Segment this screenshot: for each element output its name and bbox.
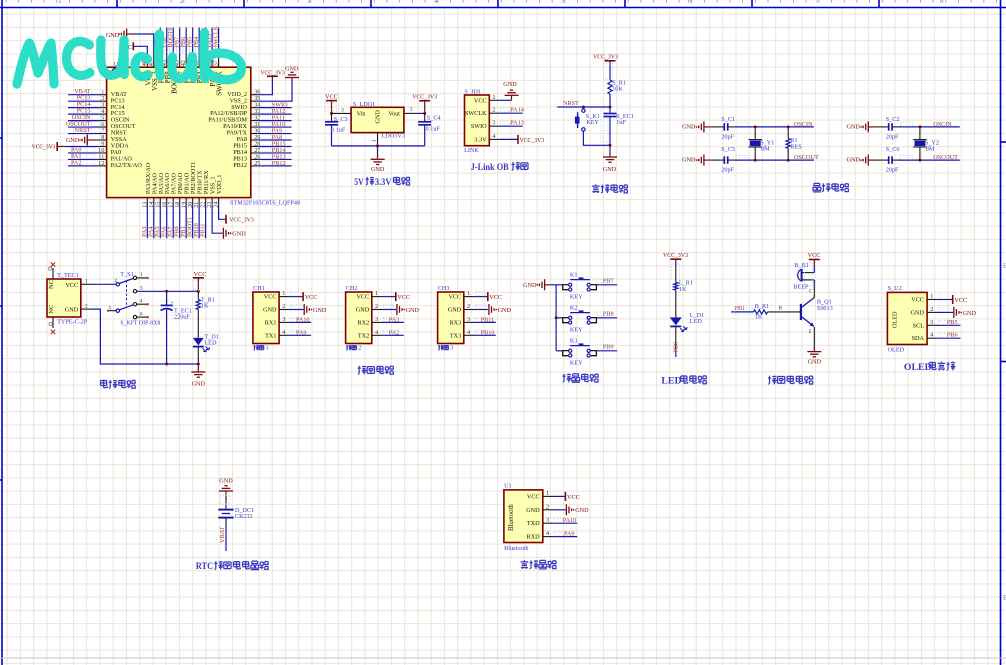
svg-text:1: 1 bbox=[492, 94, 495, 101]
wire U1 top pin 37 bbox=[218, 28, 220, 56]
svg-text:GND: GND bbox=[192, 380, 206, 387]
wire U1 pin 25 bbox=[259, 165, 292, 167]
CH3 pin 3 bbox=[464, 321, 475, 323]
node junction bbox=[582, 106, 585, 109]
svg-text:LINK: LINK bbox=[464, 147, 479, 154]
power VCC_3V3 top right of U1 bbox=[267, 75, 278, 77]
wire U1 pin 27 bbox=[259, 152, 292, 154]
node junction Vout bbox=[423, 112, 426, 115]
svg-text:4: 4 bbox=[375, 329, 378, 336]
svg-text:TYPE-C-2P: TYPE-C-2P bbox=[57, 319, 88, 326]
crystal S_Y2 8M bbox=[919, 127, 921, 139]
svg-text:VCC: VCC bbox=[356, 294, 369, 301]
TEC1 bottom pin with no-ERC bbox=[52, 317, 54, 328]
svg-text:2: 2 bbox=[930, 306, 933, 313]
power VCC_3V3 bottom of U1 bbox=[225, 215, 227, 224]
svg-text:STM32F103C8T6_LQFP48: STM32F103C8T6_LQFP48 bbox=[230, 200, 300, 207]
svg-text:S_C1: S_C1 bbox=[721, 116, 735, 123]
svg-text:VCC: VCC bbox=[305, 294, 318, 301]
svg-text:LDO3V3: LDO3V3 bbox=[382, 133, 405, 140]
svg-text:S_KFT DIP-8X8: S_KFT DIP-8X8 bbox=[120, 319, 160, 326]
svg-text:OLED: OLED bbox=[904, 362, 932, 373]
svg-text:VCC: VCC bbox=[65, 282, 78, 289]
wire U1 pin36 to VCC_3V3 bbox=[259, 76, 273, 94]
svg-text:CH1: CH1 bbox=[253, 285, 265, 292]
svg-text:GND: GND bbox=[313, 307, 327, 314]
wire bbox=[813, 266, 815, 273]
svg-text:S9013: S9013 bbox=[817, 305, 833, 312]
wire U1 pin 29 bbox=[259, 139, 292, 141]
CH2 pin 4 bbox=[372, 334, 383, 336]
CH3 pin 1 bbox=[464, 296, 475, 298]
svg-text:3: 3 bbox=[467, 316, 470, 323]
wire bbox=[710, 159, 724, 161]
svg-text:GND: GND bbox=[846, 157, 860, 164]
S_JD1 pin 1 bbox=[489, 99, 500, 101]
power VCC bt bbox=[564, 492, 566, 501]
svg-text:VCC: VCC bbox=[489, 294, 502, 301]
svg-text:B_B1: B_B1 bbox=[794, 262, 808, 269]
svg-text:PA14: PA14 bbox=[510, 107, 524, 114]
wire U1 bottom pin 14 bbox=[153, 206, 155, 239]
svg-text:Bluetooth: Bluetooth bbox=[504, 545, 529, 552]
wire bbox=[197, 347, 199, 364]
wire U1 bottom pin 16 bbox=[166, 206, 168, 239]
svg-text:PB12: PB12 bbox=[233, 162, 247, 169]
svg-text:GND: GND bbox=[356, 307, 370, 314]
svg-text:GND: GND bbox=[106, 32, 120, 39]
svg-text:PA3: PA3 bbox=[389, 317, 399, 324]
svg-text:0.1uF: 0.1uF bbox=[426, 125, 441, 132]
svg-text:OSCOUT: OSCOUT bbox=[794, 154, 819, 161]
svg-text:VCC_3V3: VCC_3V3 bbox=[412, 93, 437, 100]
svg-text:S_LDO1: S_LDO1 bbox=[353, 101, 375, 108]
key K2 bbox=[556, 317, 563, 319]
resistor L_R1 1K bbox=[674, 282, 678, 290]
svg-text:RX2: RX2 bbox=[357, 319, 369, 326]
svg-text:BEEP: BEEP bbox=[793, 283, 809, 290]
caption buzzer bbox=[768, 376, 777, 385]
svg-text:KEY: KEY bbox=[570, 327, 583, 334]
caption power bbox=[101, 380, 108, 388]
svg-text:KEY: KEY bbox=[586, 119, 599, 126]
power VCC_3V3 at pin4 bbox=[517, 135, 519, 144]
svg-text:NRST: NRST bbox=[563, 100, 579, 107]
wire to VCC bbox=[383, 296, 396, 298]
S_U2 pin 1 bbox=[927, 299, 938, 301]
svg-text:PB10: PB10 bbox=[481, 329, 495, 336]
wire key to gnd bbox=[583, 131, 610, 145]
ground of LDO bbox=[377, 146, 379, 154]
wire U1 top pin 38 bbox=[211, 28, 213, 56]
svg-text:VCC: VCC bbox=[527, 493, 540, 500]
svg-text:OSCIN: OSCIN bbox=[794, 121, 813, 128]
svg-text:20pF: 20pF bbox=[721, 166, 734, 173]
svg-text:VCC: VCC bbox=[567, 494, 580, 501]
svg-text:3: 3 bbox=[930, 319, 933, 326]
svg-text:S_U2: S_U2 bbox=[888, 285, 902, 292]
wire U1 top pin 46 bbox=[159, 28, 161, 56]
svg-text:220uF: 220uF bbox=[174, 314, 190, 321]
svg-text:SWIO: SWIO bbox=[471, 123, 487, 130]
capacitor T_EC1 220uF bbox=[166, 291, 168, 305]
caption keys bbox=[562, 374, 571, 383]
wire U1 bottom pin 18 bbox=[179, 206, 181, 239]
svg-text:20pF: 20pF bbox=[886, 134, 899, 141]
ground bbox=[304, 304, 312, 315]
throw 6 stub bbox=[137, 316, 147, 318]
wire U1 pin 28 bbox=[259, 145, 292, 147]
U1 top pins 48-37 bbox=[146, 55, 148, 67]
svg-text:GND: GND bbox=[448, 307, 462, 314]
svg-text:PB7: PB7 bbox=[603, 278, 614, 285]
wire with net label PB0 bbox=[675, 326, 677, 352]
wire base cont bbox=[768, 311, 801, 313]
svg-text:PB12: PB12 bbox=[272, 160, 286, 167]
wire bbox=[892, 126, 898, 128]
svg-text:GND: GND bbox=[371, 166, 385, 173]
svg-text:VCC: VCC bbox=[954, 297, 967, 304]
svg-text:T_TEC1: T_TEC1 bbox=[57, 272, 79, 279]
CH2 pin 3 bbox=[372, 321, 383, 323]
TEC1 top pin with no-ERC bbox=[52, 268, 54, 279]
svg-text:3: 3 bbox=[450, 345, 453, 352]
resistor R1 RES bbox=[787, 127, 789, 139]
LDO ground pin bbox=[377, 133, 379, 146]
serial connector CH1 bbox=[253, 292, 279, 344]
wire U1 top pin 41 bbox=[192, 28, 194, 56]
svg-text:GND: GND bbox=[66, 137, 80, 144]
svg-text:B: B bbox=[779, 305, 783, 311]
svg-text:8M: 8M bbox=[761, 146, 770, 153]
svg-text:PB11: PB11 bbox=[199, 223, 206, 237]
CH1 pin 4 bbox=[279, 334, 290, 336]
wire with net label VBAT bbox=[225, 518, 227, 524]
node junction Vin bbox=[330, 112, 333, 115]
wire Vout bbox=[404, 112, 418, 114]
svg-text:LED: LED bbox=[661, 376, 681, 387]
wire U1 top pin 45 bbox=[166, 28, 168, 56]
svg-text:GND: GND bbox=[65, 307, 79, 314]
svg-text:2: 2 bbox=[282, 303, 285, 310]
wire Vin bbox=[332, 112, 352, 114]
svg-text:TXD: TXD bbox=[527, 520, 540, 527]
node junction bbox=[197, 290, 200, 293]
label serial port 2 bbox=[346, 345, 351, 350]
svg-text:VCC_3V3: VCC_3V3 bbox=[260, 69, 285, 76]
svg-text:PB0: PB0 bbox=[672, 342, 679, 353]
serial connector CH2 bbox=[346, 292, 372, 344]
svg-text:3.3V: 3.3V bbox=[474, 136, 487, 143]
wire bbox=[609, 94, 611, 107]
S_JD1 pin 3 bbox=[489, 125, 500, 127]
svg-text:VCC_3V3: VCC_3V3 bbox=[520, 137, 545, 144]
capacitor S_C4 bbox=[424, 113, 426, 121]
svg-text:TX1: TX1 bbox=[265, 332, 276, 339]
svg-text:S_C3: S_C3 bbox=[334, 116, 348, 123]
svg-text:LED: LED bbox=[690, 318, 703, 325]
svg-text:PA2: PA2 bbox=[389, 329, 399, 336]
svg-text:GND: GND bbox=[575, 507, 589, 514]
wire U1 pin 24 to VCC_3V3 bbox=[219, 206, 226, 220]
label serial port 3 bbox=[438, 345, 443, 350]
wire NRST bbox=[557, 106, 610, 108]
wire U1 pin 33 bbox=[259, 113, 292, 115]
svg-text:GND: GND bbox=[682, 157, 696, 164]
svg-text:PB6: PB6 bbox=[947, 332, 958, 339]
svg-text:RTC: RTC bbox=[196, 561, 214, 572]
caption reset bbox=[592, 184, 600, 193]
svg-text:VCC: VCC bbox=[397, 294, 410, 301]
CH3 pin 4 bbox=[464, 334, 475, 336]
svg-text:7: 7 bbox=[815, 0, 819, 5]
wire net PB9 bbox=[596, 350, 617, 352]
svg-text:1: 1 bbox=[546, 490, 549, 497]
svg-text:20pF: 20pF bbox=[886, 166, 899, 173]
svg-text:J-Link OB: J-Link OB bbox=[471, 162, 509, 173]
wire bbox=[728, 126, 734, 128]
capacitor S_C5 20pF bbox=[724, 156, 727, 164]
resistor S_R1 10K bbox=[608, 80, 612, 94]
node junction bbox=[197, 363, 200, 366]
wire pin1 to GND bbox=[500, 99, 512, 101]
svg-text:OLED: OLED bbox=[892, 311, 899, 328]
power VCC bbox=[395, 292, 397, 301]
svg-text:4: 4 bbox=[546, 530, 549, 537]
capacitor S_C1 20pF bbox=[724, 123, 727, 130]
bluetooth pin 2 bbox=[543, 509, 554, 511]
node junction cap bottom bbox=[165, 363, 168, 366]
wire net PA2 bbox=[383, 334, 404, 336]
svg-text:PA10: PA10 bbox=[563, 517, 577, 524]
OLED connector S_U2 bbox=[887, 292, 927, 344]
svg-text:SDA: SDA bbox=[912, 335, 925, 342]
caption crystal bbox=[813, 183, 821, 191]
svg-text:PB9: PB9 bbox=[603, 344, 614, 351]
wire to VCC bbox=[290, 296, 303, 298]
svg-text:E: E bbox=[809, 329, 812, 335]
svg-text:VCC: VCC bbox=[474, 97, 487, 104]
switch throw 1 bbox=[133, 276, 136, 279]
svg-text:3: 3 bbox=[546, 517, 549, 524]
svg-text:S_C5: S_C5 bbox=[721, 146, 735, 153]
node junction cap top bbox=[165, 290, 168, 293]
throw 1 stub bbox=[137, 277, 147, 279]
key K3 bbox=[556, 350, 563, 352]
svg-text:K2: K2 bbox=[570, 305, 578, 312]
svg-text:10K: 10K bbox=[612, 86, 623, 93]
svg-text:S_C4: S_C4 bbox=[427, 115, 441, 122]
capacitor S_C6 20pF bbox=[889, 156, 892, 164]
svg-text:GND: GND bbox=[219, 477, 233, 484]
svg-text:1: 1 bbox=[58, 0, 62, 5]
wire U1 bottom pin 19 bbox=[185, 206, 187, 239]
svg-text:1: 1 bbox=[266, 345, 269, 352]
wire U1 pin 34 bbox=[259, 107, 292, 109]
wire U1 top pin 42 bbox=[185, 28, 187, 56]
ground power block bbox=[197, 364, 199, 372]
key bus wire bbox=[555, 285, 557, 351]
wire U1 top pin 39 bbox=[205, 28, 207, 56]
CH1 pin 2 bbox=[279, 309, 290, 311]
wire U1 top pin 43 bbox=[179, 28, 181, 56]
svg-text:KEY: KEY bbox=[570, 360, 583, 367]
wire U1 bottom pin 20 bbox=[192, 206, 194, 239]
svg-text:LED: LED bbox=[204, 340, 217, 347]
wires left of U1 bbox=[68, 94, 99, 96]
bluetooth module U1 bbox=[504, 490, 543, 543]
wire U1 pin 30 bbox=[259, 133, 292, 135]
wire bbox=[875, 126, 889, 128]
svg-text:2: 2 bbox=[467, 303, 470, 310]
svg-text:5: 5 bbox=[109, 305, 112, 311]
svg-text:1K: 1K bbox=[755, 314, 763, 321]
svg-text:VCC: VCC bbox=[808, 252, 821, 259]
wire gnd to bus bbox=[550, 284, 557, 286]
svg-text:GND: GND bbox=[263, 307, 277, 314]
svg-text:VCC: VCC bbox=[911, 297, 924, 304]
CH2 pin 1 bbox=[372, 296, 383, 298]
svg-text:3: 3 bbox=[282, 316, 285, 323]
svg-text:K1: K1 bbox=[570, 272, 578, 279]
wire net PA3 bbox=[383, 321, 404, 323]
svg-text:8: 8 bbox=[940, 0, 944, 5]
battery D_DC1 CR232 bbox=[218, 510, 233, 518]
svg-text:S_JD1: S_JD1 bbox=[464, 88, 481, 95]
svg-text:GND: GND bbox=[232, 231, 246, 238]
svg-text:20pF: 20pF bbox=[721, 134, 734, 141]
S_U2 pin 3 bbox=[927, 324, 938, 326]
wire net PB7 bbox=[596, 284, 617, 286]
svg-text:GND: GND bbox=[963, 310, 977, 317]
svg-text:1: 1 bbox=[371, 139, 377, 142]
svg-text:PA9: PA9 bbox=[296, 329, 306, 336]
svg-text:2: 2 bbox=[375, 303, 378, 310]
svg-text:1: 1 bbox=[375, 290, 378, 297]
ground reset bbox=[609, 145, 611, 152]
svg-text:OLED: OLED bbox=[888, 347, 905, 354]
svg-text:VCC: VCC bbox=[325, 93, 338, 100]
logo MCUclub bbox=[17, 33, 242, 85]
svg-text:VCC_3V3: VCC_3V3 bbox=[32, 144, 56, 151]
S_JD1 pin 2 bbox=[489, 112, 500, 114]
capacitor S_C3 bbox=[331, 113, 333, 121]
CH2 pin 2 bbox=[372, 309, 383, 311]
bluetooth pin 3 bbox=[543, 522, 554, 524]
switch throw 4 bbox=[133, 303, 136, 306]
svg-text:PA2: PA2 bbox=[71, 159, 81, 166]
wire to GND bbox=[475, 309, 489, 311]
svg-text:RXD: RXD bbox=[527, 534, 541, 541]
S_JD1 pin 4 bbox=[489, 138, 500, 140]
wire to GND bbox=[383, 309, 397, 311]
svg-text:3: 3 bbox=[492, 120, 495, 127]
bluetooth pin 1 bbox=[543, 495, 554, 497]
svg-text:T_S1: T_S1 bbox=[120, 271, 133, 278]
graphic circle on U1 bbox=[112, 69, 118, 75]
wire VCC to switch bbox=[93, 283, 116, 285]
svg-text:VBAT: VBAT bbox=[219, 527, 226, 543]
svg-text:VCC: VCC bbox=[448, 294, 461, 301]
connector T_TEC1 TYPE-C-2P bbox=[47, 279, 81, 317]
S_U2 pin 2 bbox=[927, 311, 938, 313]
svg-text:PA13: PA13 bbox=[510, 120, 524, 127]
power VCC oled bbox=[952, 295, 954, 304]
wire bbox=[675, 290, 677, 317]
svg-text:TX2: TX2 bbox=[358, 332, 369, 339]
wire U1 bottom pin 17 bbox=[172, 206, 174, 239]
transistor B_Q1 S9013 bbox=[800, 304, 802, 320]
wire to collector bbox=[813, 280, 815, 286]
svg-text:CH3: CH3 bbox=[438, 285, 450, 292]
svg-text:Bluetooth: Bluetooth bbox=[508, 504, 515, 531]
svg-text:CR232: CR232 bbox=[235, 513, 253, 520]
svg-text:PB8: PB8 bbox=[603, 311, 614, 318]
wire U1 pin35 to GND bbox=[259, 78, 292, 102]
crystal S_Y1 8M bbox=[754, 127, 756, 139]
svg-text:U1: U1 bbox=[504, 483, 512, 490]
svg-text:5: 5 bbox=[561, 0, 565, 5]
ground oled bbox=[954, 307, 962, 318]
wire VCC bbox=[938, 299, 953, 301]
wire U1 bottom pin 21 bbox=[198, 206, 200, 239]
wire pin3 PA13 bbox=[500, 125, 523, 127]
svg-text:GND: GND bbox=[911, 309, 925, 316]
wire net PB11 bbox=[475, 321, 496, 323]
wire U1 bottom pin 22 bbox=[205, 206, 207, 239]
svg-text:4: 4 bbox=[930, 332, 933, 339]
svg-text:PA9: PA9 bbox=[564, 530, 574, 537]
ground bt bbox=[566, 504, 574, 515]
svg-text:2: 2 bbox=[546, 503, 549, 510]
svg-text:OSCOUT: OSCOUT bbox=[933, 154, 958, 161]
svg-text:6: 6 bbox=[688, 0, 692, 5]
wire bbox=[710, 126, 724, 128]
wire U1 pin 26 bbox=[259, 158, 292, 160]
svg-text:RX3: RX3 bbox=[449, 319, 461, 326]
svg-text:NC: NC bbox=[48, 279, 55, 289]
svg-text:2: 2 bbox=[114, 278, 117, 284]
svg-text:1: 1 bbox=[140, 272, 143, 278]
svg-text:GND: GND bbox=[285, 66, 299, 73]
svg-text:SCL: SCL bbox=[913, 322, 925, 329]
svg-text:+: + bbox=[171, 301, 174, 307]
svg-text:8M: 8M bbox=[926, 146, 935, 153]
bottom wire bbox=[332, 145, 425, 147]
svg-text:RES: RES bbox=[790, 144, 802, 151]
svg-text:1: 1 bbox=[85, 279, 88, 285]
svg-text:5V: 5V bbox=[354, 177, 364, 188]
resistor T_R1 1K bbox=[197, 291, 199, 299]
wire GND bbox=[938, 311, 953, 313]
svg-text:2: 2 bbox=[180, 0, 184, 5]
LED T_D1 bbox=[193, 338, 204, 346]
svg-text:1K: 1K bbox=[679, 286, 687, 293]
wire to GND bbox=[290, 309, 304, 311]
caption serial bbox=[358, 366, 367, 375]
svg-text:1: 1 bbox=[282, 290, 285, 297]
wire pin4 to VCC_3V3 bbox=[500, 138, 518, 140]
svg-text:GND: GND bbox=[846, 124, 860, 131]
wire bbox=[197, 310, 199, 338]
wire U1 pin 32 bbox=[259, 120, 292, 122]
svg-text:SWCLK: SWCLK bbox=[465, 110, 487, 117]
label serial port 1 bbox=[254, 345, 259, 350]
wire VCC bbox=[554, 495, 566, 497]
svg-text:4: 4 bbox=[140, 299, 143, 305]
svg-text:C: C bbox=[809, 288, 813, 294]
svg-text:RX1: RX1 bbox=[265, 319, 277, 326]
